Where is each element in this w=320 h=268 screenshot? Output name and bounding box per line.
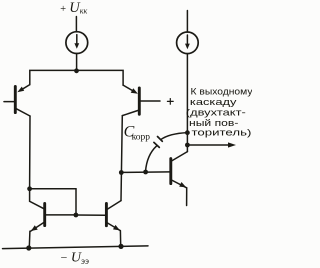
svg-text:− Uээ: − Uээ [60, 251, 89, 267]
label to output stage text [186, 87, 253, 138]
emitter Q4 diagonal [107, 223, 120, 231]
wire diode connection horizontal [30, 188, 76, 190]
emitter arrow of Q5 (NPN) [179, 182, 186, 187]
base lead Q3 [46, 214, 76, 216]
svg-text:каскаду: каскаду [190, 97, 237, 107]
node output junction dot [185, 143, 190, 148]
transistor Q2 base bar [138, 88, 141, 114]
wire top feed of output branch [186, 11, 188, 33]
node rail left dot [26, 245, 31, 250]
node mirror bases dot [74, 213, 79, 218]
current source I2 circle [177, 32, 199, 54]
node tail junction dot [74, 68, 79, 73]
capacitor Ccorr curved lead upper [161, 133, 188, 140]
wire right emitter diagonal into Q2 [123, 85, 134, 91]
svg-text:ный пов-: ный пов- [189, 118, 239, 128]
collector Q3 feed [30, 189, 44, 209]
svg-text:торитель): торитель) [192, 128, 252, 138]
collector Q2 diagonal [122, 110, 138, 115]
current source I2 arrow [186, 35, 188, 44]
wire emitter rail horizontal [30, 70, 123, 85]
collector Q4 diagonal [107, 201, 121, 210]
wire left emitter diagonal into Q1 [21, 85, 30, 91]
collector Q5 diagonal [172, 152, 188, 161]
label + input [167, 100, 173, 102]
wire output arrow to next stage [187, 144, 228, 146]
node second-stage input junction dot [119, 170, 124, 175]
transistor Q5 second stage base bar [169, 159, 172, 184]
node rail right dot [118, 244, 123, 249]
transistor Q1 base bar [14, 86, 17, 112]
svg-text:+ Uкк: + Uкк [60, 0, 88, 16]
capacitor Ccorr plate lower [154, 142, 159, 147]
wire Q2 collector down to second stage node [121, 116, 122, 201]
wire Q5 emitter down dangling [186, 188, 188, 206]
base lead input Q2 [141, 100, 160, 102]
wire negative supply rail [3, 246, 149, 249]
capacitor Ccorr plate upper [158, 137, 163, 142]
wire diode connection vertical [75, 189, 77, 215]
emitter arrow of Q4 (NPN) [113, 225, 120, 231]
current source I1 arrow [76, 35, 78, 44]
base lead input Q1 [4, 101, 14, 103]
transistor Q3 base bar [43, 204, 46, 226]
emitter arrow of Q3 (NPN) [31, 225, 38, 231]
wire Q3 emitter to rail [28, 231, 31, 247]
wire Q4 emitter to rail [119, 231, 121, 247]
capacitor Ccorr curved lead lower [146, 146, 157, 172]
svg-text:корр: корр [132, 133, 151, 143]
emitter arrow of Q2 (PNP) [131, 88, 138, 94]
wire Q1 collector down to mirror node [29, 116, 31, 189]
emitter Q5 diagonal [172, 180, 187, 188]
wire from +Ukk label to current source I1 [75, 17, 77, 32]
node Ccorr tap dot [143, 170, 148, 175]
wire mirror bases to Q4 [76, 214, 105, 216]
wire current source I1 to tail node [76, 54, 78, 71]
collector Q1 diagonal [16, 109, 30, 116]
transistor Q4 base bar [105, 203, 108, 225]
svg-text:К выходному: К выходному [191, 87, 253, 97]
current source I1 circle [66, 32, 88, 54]
wire base of Q5 horizontal [121, 171, 169, 174]
svg-text:(двухтакт-: (двухтакт- [186, 108, 246, 118]
emitter Q3 diagonal [31, 223, 44, 232]
label Ccorr [124, 123, 151, 142]
wire output branch vertical [186, 54, 188, 152]
emitter arrow of Q1 (PNP) [17, 87, 24, 93]
label +Ukk supply [60, 0, 88, 16]
node mirror collector dot [27, 186, 32, 191]
label -Uee supply [60, 251, 89, 267]
node Ccorr top junction dot [185, 130, 190, 135]
